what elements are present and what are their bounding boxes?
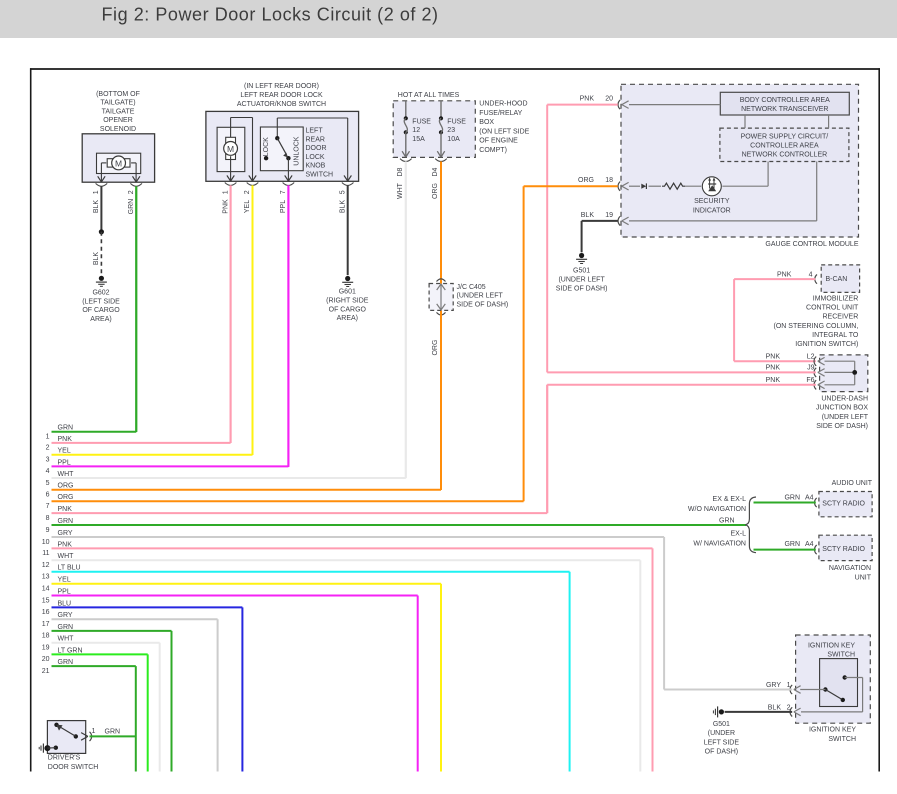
svg-text:PNK: PNK	[58, 506, 73, 513]
fuse pin D8	[397, 167, 404, 176]
wire 2 PNK horizontal run	[46, 436, 231, 452]
wire ORG below J/C C405	[432, 311, 441, 490]
wire 3 YEL vertical segment up to door lock pin 2	[252, 186, 254, 455]
svg-text:RECEIVER: RECEIVER	[823, 314, 859, 321]
svg-text:UNIT: UNIT	[855, 575, 872, 582]
wire 12 WHT vertical segment down off page	[639, 560, 641, 771]
wire 4 PPL horizontal run	[46, 459, 289, 475]
wire 5 WHT vertical segment up to fuse 12 pin D8	[405, 163, 407, 479]
svg-text:16: 16	[42, 609, 50, 616]
driver door switch contacts	[54, 723, 78, 739]
svg-text:3: 3	[46, 457, 50, 464]
solenoid motor M	[101, 156, 136, 170]
svg-text:COMPT): COMPT)	[479, 147, 507, 154]
svg-text:WHT: WHT	[397, 182, 404, 199]
ignition pin 2	[768, 704, 801, 716]
svg-text:PPL: PPL	[280, 200, 287, 213]
svg-text:1: 1	[92, 728, 96, 735]
body controller area network transceiver box	[720, 92, 849, 115]
svg-text:CONTROL UNIT: CONTROL UNIT	[806, 305, 859, 312]
wire 11 PNK vertical segment down off page	[652, 548, 654, 771]
svg-text:AUDIO UNIT: AUDIO UNIT	[832, 480, 873, 487]
svg-text:(BOTTOM OF: (BOTTOM OF	[96, 91, 140, 98]
ignition key switch box	[796, 635, 871, 723]
wire PNK actuator pin 1 down	[222, 185, 230, 443]
svg-text:OPENER: OPENER	[103, 117, 133, 124]
svg-text:WHT: WHT	[58, 471, 75, 478]
svg-text:19: 19	[605, 212, 613, 219]
svg-text:A4: A4	[805, 541, 814, 548]
svg-text:14: 14	[42, 586, 50, 593]
diode D inside module	[641, 183, 646, 189]
internal wire pin19 to controller	[629, 162, 817, 221]
svg-text:POWER SUPPLY CIRCUIT/: POWER SUPPLY CIRCUIT/	[741, 133, 829, 140]
svg-text:DOOR SWITCH: DOOR SWITCH	[48, 764, 99, 771]
door lock knob switch name	[306, 128, 334, 179]
svg-text:GRY: GRY	[766, 682, 781, 689]
svg-text:G501: G501	[713, 721, 730, 728]
svg-text:W/ NAVIGATION: W/ NAVIGATION	[693, 540, 746, 547]
svg-text:2: 2	[46, 445, 50, 452]
svg-text:SCTY RADIO: SCTY RADIO	[822, 546, 865, 553]
svg-text:4: 4	[46, 468, 50, 475]
ground G602	[82, 276, 120, 323]
svg-text:D8: D8	[397, 167, 404, 176]
svg-text:PPL: PPL	[58, 588, 71, 595]
svg-text:1: 1	[93, 190, 100, 194]
driver door switch name	[48, 755, 99, 772]
svg-text:17: 17	[42, 621, 50, 628]
svg-text:TAILGATE: TAILGATE	[102, 108, 135, 115]
wire 18 GRN horizontal run	[42, 624, 172, 640]
wire 7 ORG horizontal run	[46, 494, 524, 510]
solenoid pin 1	[93, 176, 107, 194]
svg-text:BOX: BOX	[479, 119, 494, 126]
svg-text:SIDE OF DASH): SIDE OF DASH)	[457, 301, 509, 308]
svg-text:TAILGATE): TAILGATE)	[100, 100, 135, 107]
svg-text:NETWORK CONTROLLER: NETWORK CONTROLLER	[742, 151, 828, 158]
wire 6 ORG vertical segment up to fuse 23 pin D4 through J/C C405	[440, 163, 442, 490]
solenoid pin 2	[128, 176, 142, 194]
svg-text:D4: D4	[432, 167, 439, 176]
fuse pin D4	[432, 167, 439, 176]
wire 10 GRY vertical segment down to ignition key switch pin 1	[663, 537, 665, 690]
svg-text:INTEGRAL TO: INTEGRAL TO	[812, 332, 859, 339]
svg-text:(UNDER LEFT: (UNDER LEFT	[457, 293, 504, 300]
svg-text:20: 20	[605, 96, 613, 103]
svg-text:G601: G601	[339, 289, 356, 296]
svg-text:(UNDER LEFT: (UNDER LEFT	[822, 414, 869, 421]
wire 5 WHT horizontal run	[46, 471, 406, 487]
svg-text:J9: J9	[807, 365, 815, 372]
svg-text:15A: 15A	[412, 136, 425, 143]
svg-text:SWITCH: SWITCH	[828, 736, 856, 743]
svg-text:LOCK: LOCK	[306, 154, 325, 161]
svg-text:12: 12	[412, 127, 420, 134]
svg-text:G501: G501	[573, 268, 590, 275]
svg-text:INDICATOR: INDICATOR	[693, 207, 731, 214]
navigation unit box	[819, 535, 872, 581]
svg-text:BLK: BLK	[768, 704, 782, 711]
wire 8 PNK horizontal run	[46, 506, 548, 522]
svg-text:M: M	[115, 158, 122, 168]
EX EX-L W/O NAVIGATION label	[688, 496, 746, 513]
wire PNK B-CAN to L2	[734, 279, 816, 361]
svg-text:GRN: GRN	[719, 518, 735, 525]
wire 19 WHT horizontal run	[42, 636, 160, 652]
svg-text:GRN: GRN	[784, 495, 800, 502]
wire 10 GRY horizontal run	[42, 530, 664, 546]
svg-text:FUSE: FUSE	[412, 118, 431, 125]
svg-text:ORG: ORG	[578, 177, 594, 184]
svg-text:GRY: GRY	[58, 530, 73, 537]
svg-text:GRN: GRN	[784, 541, 800, 548]
GAUGE CONTROL MODULE label	[765, 241, 858, 248]
wire 13 LT BLU vertical segment down off page	[569, 572, 571, 772]
tailgate opener solenoid label	[96, 91, 140, 133]
junction pin F6	[766, 377, 825, 389]
svg-text:LEFT REAR DOOR LOCK: LEFT REAR DOOR LOCK	[240, 92, 323, 99]
svg-text:(IN LEFT REAR DOOR): (IN LEFT REAR DOOR)	[244, 83, 319, 90]
svg-text:BLK: BLK	[339, 200, 346, 214]
svg-text:PNK: PNK	[222, 199, 229, 214]
power supply circuit controller box	[720, 128, 849, 161]
splice junction on BLK wire	[99, 229, 104, 234]
ground G601	[326, 276, 369, 322]
door lock actuator box	[206, 111, 359, 181]
svg-text:PNK: PNK	[580, 96, 595, 103]
svg-text:CONTROLLER AREA: CONTROLLER AREA	[750, 142, 819, 149]
actuator motor wiring	[231, 118, 253, 182]
svg-text:(LEFT SIDE: (LEFT SIDE	[82, 298, 120, 305]
ground G501 under dash	[704, 706, 740, 755]
svg-text:UNDER-DASH: UNDER-DASH	[821, 395, 868, 402]
svg-text:2: 2	[128, 190, 135, 194]
B-CAN pin 4	[777, 272, 817, 284]
actuator pin 7	[280, 175, 294, 194]
svg-text:W/O NAVIGATION: W/O NAVIGATION	[688, 506, 746, 513]
door lock actuator label	[237, 83, 326, 108]
svg-text:B-CAN: B-CAN	[826, 276, 848, 283]
svg-text:13: 13	[42, 574, 50, 581]
wire 17 GRY horizontal run	[42, 612, 218, 628]
svg-text:ORG: ORG	[432, 183, 439, 199]
svg-text:PNK: PNK	[766, 354, 781, 361]
svg-text:Fig 2: Power Door Locks Circui: Fig 2: Power Door Locks Circuit (2 of 2)	[102, 5, 439, 25]
svg-text:HOT AT ALL TIMES: HOT AT ALL TIMES	[398, 92, 460, 99]
immobilizer B-CAN box	[821, 265, 859, 293]
svg-text:DRIVER'S: DRIVER'S	[48, 755, 81, 762]
svg-text:LEFT: LEFT	[306, 128, 324, 135]
junction pin L2	[766, 354, 825, 366]
svg-text:GRN: GRN	[58, 659, 74, 666]
wire PPL actuator pin 7 down	[280, 185, 288, 467]
wire YEL actuator pin 2 down	[244, 185, 252, 455]
svg-text:FUSE/RELAY: FUSE/RELAY	[479, 110, 522, 117]
wire PNK module pin 20 run	[547, 104, 618, 106]
internal wire pin20 to transceiver	[629, 104, 720, 106]
brace for radio variants	[745, 497, 756, 553]
wire 17 GRY vertical segment down off page	[217, 619, 219, 771]
svg-text:EX & EX-L: EX & EX-L	[713, 496, 747, 503]
svg-text:AREA): AREA)	[337, 315, 358, 322]
module pin 19	[581, 212, 629, 226]
svg-text:BLK: BLK	[581, 212, 595, 219]
svg-text:UNLOCK: UNLOCK	[293, 136, 300, 166]
svg-text:L2: L2	[807, 354, 815, 361]
wire 1 GRN horizontal run	[46, 425, 137, 441]
svg-text:8: 8	[46, 515, 50, 522]
svg-text:PNK: PNK	[777, 272, 792, 279]
svg-text:12: 12	[42, 562, 50, 569]
wire 15 PPL horizontal run	[42, 588, 418, 604]
svg-text:EX-L: EX-L	[730, 531, 746, 538]
svg-text:BLK: BLK	[93, 200, 100, 214]
wire 6 ORG horizontal run	[46, 483, 441, 499]
solenoid inner housing	[97, 153, 141, 173]
HOT AT ALL TIMES label	[398, 92, 460, 99]
svg-text:IGNITION KEY: IGNITION KEY	[808, 642, 855, 649]
tailgate opener solenoid box	[82, 134, 154, 182]
svg-text:AREA): AREA)	[90, 316, 111, 323]
wire 16 BLU vertical segment down off page	[241, 607, 243, 771]
svg-text:REAR: REAR	[306, 136, 325, 143]
svg-text:5: 5	[46, 480, 50, 487]
svg-text:IGNITION SWITCH): IGNITION SWITCH)	[795, 341, 858, 348]
links transceiver to controller	[745, 115, 829, 128]
svg-text:9: 9	[46, 527, 50, 534]
wire 19 WHT vertical segment down off page	[159, 643, 161, 772]
module pin 18	[578, 177, 629, 191]
actuator pin 5	[339, 175, 353, 194]
svg-text:SIDE OF DASH): SIDE OF DASH)	[816, 423, 868, 430]
wire GRN to audio unit	[754, 502, 816, 504]
svg-text:GRN: GRN	[58, 425, 74, 432]
svg-text:FUSE: FUSE	[447, 118, 466, 125]
svg-text:WHT: WHT	[58, 636, 75, 643]
svg-text:19: 19	[42, 645, 50, 652]
wire BLK module pin 19 run	[582, 220, 618, 222]
svg-text:7: 7	[46, 503, 50, 510]
svg-text:1: 1	[222, 190, 229, 194]
svg-text:SECURITY: SECURITY	[694, 198, 730, 205]
wire 14 YEL horizontal run	[42, 577, 441, 593]
svg-text:(ON STEERING COLUMN,: (ON STEERING COLUMN,	[774, 323, 859, 330]
svg-text:OF ENGINE: OF ENGINE	[479, 138, 518, 145]
driver door switch case ground	[39, 744, 58, 753]
junction box internal bus	[825, 361, 858, 385]
svg-text:(UNDER LEFT: (UNDER LEFT	[558, 277, 605, 284]
svg-text:YEL: YEL	[58, 448, 71, 455]
wire 16 BLU horizontal run	[42, 600, 243, 616]
svg-text:SCTY RADIO: SCTY RADIO	[822, 501, 865, 508]
ignition key switch name below	[809, 727, 856, 743]
audio unit box	[819, 480, 873, 517]
wire 12 WHT horizontal run	[42, 553, 641, 569]
svg-text:5: 5	[339, 190, 346, 194]
GRN label at brace	[719, 518, 735, 525]
svg-text:PNK: PNK	[58, 541, 73, 548]
svg-text:1: 1	[46, 434, 50, 441]
svg-text:(UNDER: (UNDER	[708, 730, 735, 737]
wire 14 YEL vertical segment down off page	[440, 584, 442, 772]
audio unit pin A4	[784, 495, 816, 508]
svg-text:KNOB: KNOB	[306, 163, 326, 170]
wire GRN door switch to wire 21	[90, 735, 136, 737]
wire 9 GRN horizontal run	[46, 518, 746, 534]
svg-text:GRN: GRN	[105, 729, 121, 736]
under-dash junction box	[820, 355, 868, 392]
fuse 23 10A	[435, 101, 466, 162]
svg-text:10A: 10A	[447, 136, 460, 143]
navigation unit pin A4	[784, 541, 816, 554]
knob switch box	[260, 127, 303, 171]
svg-text:PNK: PNK	[766, 377, 781, 384]
solenoid internal wires	[101, 163, 136, 182]
svg-text:SOLENOID: SOLENOID	[100, 126, 136, 133]
svg-text:LEFT SIDE: LEFT SIDE	[704, 739, 740, 746]
svg-text:YEL: YEL	[58, 577, 71, 584]
svg-text:(ON LEFT SIDE: (ON LEFT SIDE	[479, 128, 529, 135]
svg-text:GRN: GRN	[58, 624, 74, 631]
wire 1 GRN vertical segment up to tailgate solenoid pin 2	[135, 186, 137, 432]
svg-text:11: 11	[42, 550, 49, 557]
knob switch contacts and lever	[264, 118, 348, 181]
actuator pin 1	[222, 175, 236, 194]
wire GRN to navigation unit	[754, 549, 816, 551]
internal wire pin18 chain	[629, 162, 768, 187]
wire BLK actuator pin 5 down	[339, 185, 347, 275]
wire 3 YEL horizontal run	[46, 448, 253, 464]
actuator motor housing	[217, 127, 245, 171]
svg-text:IGNITION KEY: IGNITION KEY	[809, 727, 856, 734]
svg-text:LT BLU: LT BLU	[58, 565, 81, 572]
under-hood fuse box	[393, 101, 475, 158]
wire PNK pin20 vertical to J9	[546, 105, 548, 373]
EX-L W NAVIGATION label	[693, 531, 746, 548]
svg-text:GAUGE CONTROL MODULE: GAUGE CONTROL MODULE	[765, 241, 858, 248]
svg-text:18: 18	[42, 633, 50, 640]
under-hood fuse box name	[479, 101, 529, 155]
svg-text:2: 2	[787, 704, 791, 711]
svg-text:SIDE OF DASH): SIDE OF DASH)	[556, 285, 608, 292]
svg-text:7: 7	[280, 190, 287, 194]
svg-text:18: 18	[605, 177, 613, 184]
svg-text:1: 1	[787, 682, 791, 689]
wire PNK J9 run	[547, 371, 816, 373]
svg-text:OF CARGO: OF CARGO	[329, 306, 367, 313]
svg-text:20: 20	[42, 656, 50, 663]
driver door switch pin 1	[81, 728, 120, 741]
svg-text:6: 6	[46, 492, 50, 499]
svg-text:ORG: ORG	[58, 494, 74, 501]
under-dash junction box name	[816, 395, 869, 430]
actuator motor M	[224, 137, 238, 160]
wire 21 GRN horizontal run	[42, 659, 136, 675]
svg-text:NAVIGATION: NAVIGATION	[829, 565, 871, 572]
resistor inside module	[662, 183, 685, 189]
actuator pin 2	[244, 175, 258, 194]
wire GRN solenoid pin 2 down	[128, 186, 136, 432]
wire PNK F6 run	[547, 385, 816, 513]
ignition switch contacts	[823, 675, 847, 702]
svg-text:M: M	[227, 144, 234, 154]
wire 11 PNK horizontal run	[42, 541, 652, 557]
wire 2 PNK vertical segment up to door lock pin 1	[230, 186, 232, 443]
svg-text:F6: F6	[806, 377, 814, 384]
wire BLK pin19 down to G501	[581, 221, 583, 252]
wire GRY to ignition pin 1	[664, 689, 792, 691]
svg-text:IMMOBILIZER: IMMOBILIZER	[813, 296, 859, 303]
svg-text:SWITCH: SWITCH	[827, 651, 855, 658]
wire BLK from solenoid pin 1	[93, 186, 101, 232]
svg-text:PNK: PNK	[766, 365, 781, 372]
svg-text:LOCK: LOCK	[263, 137, 270, 156]
svg-text:LT GRN: LT GRN	[58, 647, 83, 654]
security indicator LED	[693, 177, 731, 215]
driver door switch box	[47, 721, 85, 754]
svg-text:ORG: ORG	[432, 340, 439, 356]
svg-text:PNK: PNK	[58, 436, 73, 443]
svg-text:PPL: PPL	[58, 459, 71, 466]
svg-text:23: 23	[447, 127, 455, 134]
wire 21 GRN vertical segment down past driver door switch branch	[135, 666, 137, 771]
svg-text:G602: G602	[92, 289, 109, 296]
svg-text:WHT: WHT	[58, 553, 75, 560]
fuse 12 15A	[400, 101, 431, 162]
svg-text:4: 4	[809, 272, 813, 279]
knob switch LOCK label	[263, 137, 270, 156]
svg-text:NETWORK TRANSCEIVER: NETWORK TRANSCEIVER	[741, 106, 828, 113]
svg-text:OF CARGO: OF CARGO	[82, 307, 120, 314]
wire WHT from fuse D8	[397, 161, 406, 478]
svg-text:JUNCTION BOX: JUNCTION BOX	[816, 405, 868, 412]
wire 20 LT GRN vertical segment down off page	[147, 654, 149, 771]
junction pin J9	[766, 365, 825, 377]
svg-text:BLU: BLU	[58, 600, 72, 607]
svg-text:GRY: GRY	[58, 612, 73, 619]
wire 7 ORG vertical segment up toward gauge module pin 18	[523, 186, 525, 501]
wire BLK dashed to G602	[93, 232, 101, 275]
knob switch UNLOCK label	[293, 136, 300, 166]
svg-text:BODY CONTROLLER AREA: BODY CONTROLLER AREA	[740, 97, 830, 104]
wire BLK ignition pin 2 to G501	[725, 711, 793, 713]
svg-text:ACTUATOR/KNOB SWITCH: ACTUATOR/KNOB SWITCH	[237, 101, 326, 108]
svg-text:BLK: BLK	[93, 252, 100, 266]
wire ORG from fuse D4 upper	[432, 161, 441, 283]
title bar	[0, 0, 897, 38]
ignition pin 1	[766, 682, 801, 694]
svg-text:(RIGHT SIDE: (RIGHT SIDE	[326, 297, 369, 304]
svg-text:21: 21	[42, 668, 50, 675]
ignition switch inner box	[820, 659, 858, 707]
wire 4 PPL vertical segment up to door lock pin 7	[287, 186, 289, 466]
wire 13 LT BLU horizontal run	[42, 565, 570, 581]
svg-text:UNDER-HOOD: UNDER-HOOD	[479, 101, 527, 108]
wire 8 PNK vertical segment up to junction box pin F6	[546, 385, 548, 513]
immobilizer name	[774, 296, 860, 349]
ignition internal wiring	[800, 678, 862, 712]
svg-text:A4: A4	[805, 495, 814, 502]
svg-text:ORG: ORG	[58, 483, 74, 490]
gauge control module box	[621, 84, 859, 237]
module pin 20	[580, 96, 629, 110]
wire 18 GRN vertical segment down off page	[171, 631, 173, 772]
svg-text:YEL: YEL	[244, 200, 251, 213]
svg-text:GRN: GRN	[58, 518, 74, 525]
svg-text:OF DASH): OF DASH)	[705, 749, 738, 756]
svg-text:DOOR: DOOR	[306, 145, 327, 152]
